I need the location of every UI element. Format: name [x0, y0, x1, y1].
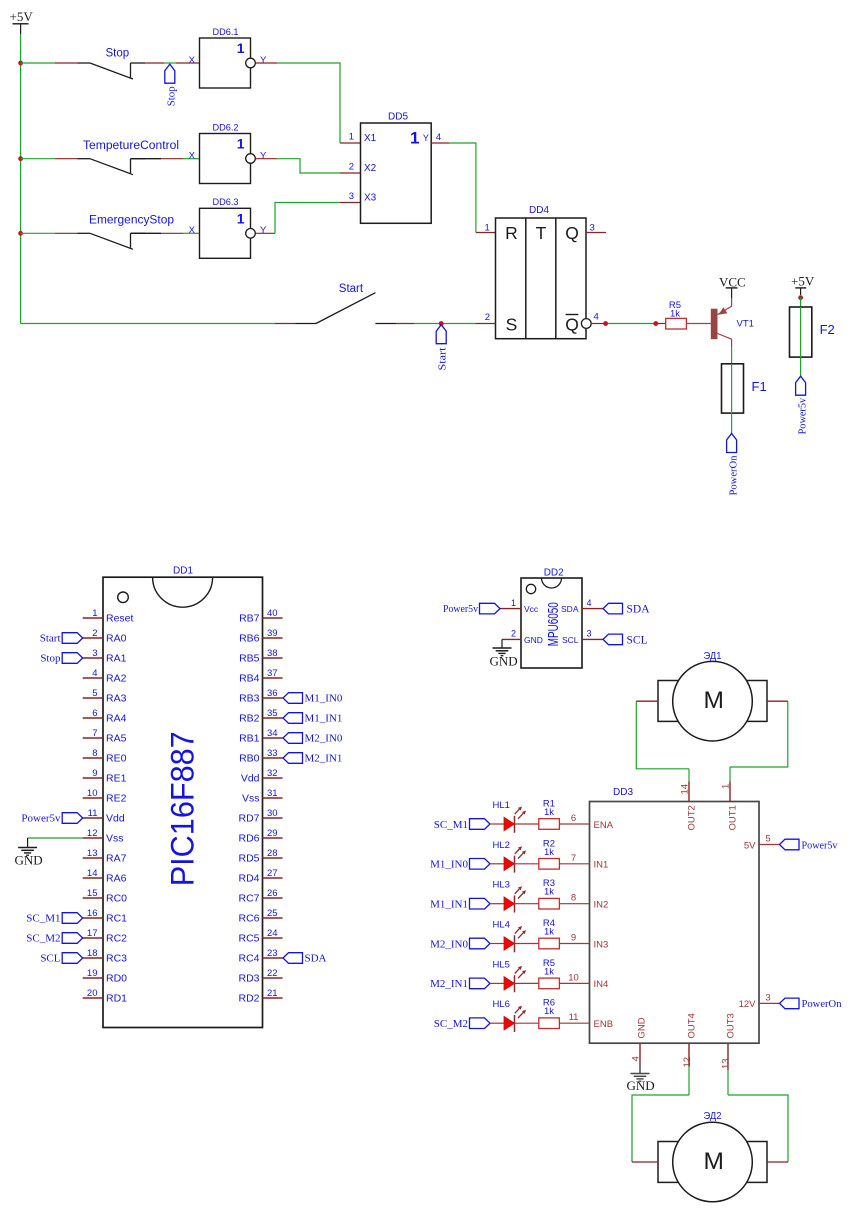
switch SA4 Start: [296, 283, 376, 324]
svg-text:M1_IN1: M1_IN1: [305, 713, 343, 725]
svg-text:HL5: HL5: [493, 959, 510, 970]
resistor R2 1k: [539, 838, 560, 869]
pin DD5.1: [349, 132, 354, 143]
resistor R6 1k: [539, 998, 560, 1029]
flag PowerOn at DD3.3: [780, 998, 842, 1010]
wire F1 to PowerOn flag: [731, 413, 733, 434]
wire OUT1 to ЭД1 right terminal: [730, 701, 788, 781]
svg-text:15: 15: [87, 888, 98, 899]
wire HL4 to R4: [514, 943, 539, 945]
svg-text:RC1: RC1: [106, 913, 127, 925]
svg-text:29: 29: [267, 828, 278, 839]
svg-text:RD4: RD4: [238, 873, 259, 885]
svg-text:4: 4: [92, 668, 97, 679]
svg-text:GND: GND: [637, 1017, 648, 1038]
pin DD2.4 SDA: [561, 598, 603, 614]
svg-text:RA0: RA0: [106, 633, 127, 645]
pin DD1.32 Vdd: [241, 768, 283, 785]
svg-text:RD1: RD1: [106, 993, 127, 1005]
svg-text:RC3: RC3: [106, 953, 127, 965]
svg-text:1: 1: [237, 210, 245, 226]
svg-text:24: 24: [267, 928, 278, 939]
pin DD5.3: [349, 191, 354, 202]
svg-text:1: 1: [237, 40, 245, 56]
svg-text:M1_IN0: M1_IN0: [430, 859, 468, 871]
svg-text:32: 32: [267, 768, 278, 779]
svg-text:5: 5: [92, 688, 97, 699]
svg-text:Q: Q: [565, 223, 579, 243]
pin DD3.10 IN4: [559, 972, 608, 990]
wire OUT3 to ЭД2 right terminal: [728, 1070, 788, 1162]
led HL2: [493, 840, 527, 873]
wire M2_IN1 flag to HL5: [490, 982, 504, 984]
flag M2_IN0 at DD1.34: [283, 733, 343, 745]
wire +5V to F2: [800, 298, 802, 307]
pin DD1.14 RA6: [83, 868, 127, 885]
pin DD5.2: [349, 162, 354, 173]
switch SA2 TempetureControl: [78, 140, 180, 175]
flag Start (vertical): [436, 325, 448, 371]
svg-text:T: T: [536, 223, 547, 243]
wire HL6 to R6: [514, 1022, 539, 1024]
svg-text:28: 28: [267, 848, 278, 859]
svg-text:2: 2: [485, 312, 490, 323]
pin DD1.31 Vss: [242, 788, 283, 805]
svg-text:1k: 1k: [544, 887, 554, 898]
svg-text:6: 6: [92, 708, 97, 719]
svg-text:RD5: RD5: [238, 853, 259, 865]
svg-text:HL3: HL3: [493, 880, 510, 891]
svg-text:ENA: ENA: [594, 820, 614, 831]
node junction Start flag: [439, 321, 444, 326]
pin DD4.3 Q output stub: [586, 222, 606, 233]
flag Power5v at DD2.1: [443, 603, 500, 615]
svg-text:S: S: [506, 315, 518, 335]
flag SC_M2 at DD3.11: [434, 1018, 490, 1030]
pin DD1.4 RA2: [83, 668, 127, 685]
pin DD1.30 RD7: [238, 808, 282, 825]
pin DD3.4 GND: [631, 1017, 648, 1064]
svg-text:X3: X3: [364, 193, 377, 204]
wire DD4 Q-bar to R5: [592, 323, 666, 325]
svg-text:SC_M1: SC_M1: [26, 913, 60, 925]
svg-text:4: 4: [631, 1056, 642, 1061]
wire row2 switch to DD6.2: [131, 158, 200, 160]
svg-text:2: 2: [349, 162, 354, 173]
resistor R3 1k: [539, 878, 560, 909]
svg-text:3: 3: [92, 648, 97, 659]
flag PowerOn (vertical): [727, 434, 740, 496]
svg-text:IN4: IN4: [594, 979, 609, 990]
svg-text:HL2: HL2: [493, 840, 510, 851]
wire row2 rail to switch: [21, 158, 78, 160]
svg-text:DD3: DD3: [613, 787, 633, 798]
wire F2 to Power5v flag: [800, 357, 802, 376]
flag Power5v at DD1.11: [21, 813, 82, 825]
svg-text:RA2: RA2: [106, 673, 127, 685]
fuse F2: [790, 307, 835, 357]
svg-text:Stop: Stop: [106, 48, 130, 60]
svg-text:22: 22: [267, 968, 278, 979]
svg-text:SCL: SCL: [627, 634, 648, 646]
svg-text:Y: Y: [260, 55, 267, 66]
pin DD1.39 RB6: [239, 628, 282, 645]
svg-text:RA1: RA1: [106, 653, 127, 665]
switch SA1 Stop: [78, 48, 146, 80]
pin DD4.1: [485, 222, 490, 233]
flag Start at DD1.2: [40, 633, 83, 645]
inverter DD6.2: [189, 122, 267, 183]
fuse F1: [722, 364, 767, 413]
wire +5V rail vertical: [20, 34, 22, 324]
svg-text:HL4: HL4: [493, 920, 510, 931]
svg-text:16: 16: [87, 908, 98, 919]
svg-text:RA7: RA7: [106, 853, 127, 865]
svg-text:OUT1: OUT1: [727, 805, 738, 830]
led HL4: [493, 920, 527, 953]
flag M2_IN1 at DD3.10: [430, 978, 490, 990]
svg-text:34: 34: [267, 728, 278, 739]
svg-text:M: M: [703, 687, 723, 714]
svg-text:DD5: DD5: [388, 112, 408, 123]
wire HL2 to R2: [514, 863, 539, 865]
flag SDA at DD1.23: [283, 953, 327, 965]
wire row3 rail to switch: [21, 232, 78, 234]
svg-text:ENB: ENB: [594, 1019, 614, 1030]
svg-text:35: 35: [267, 708, 278, 719]
wire row1 rail to switch: [21, 62, 78, 64]
flag M1_IN1 at DD3.8: [430, 898, 490, 910]
svg-text:12: 12: [682, 1057, 693, 1068]
svg-text:GND: GND: [627, 1078, 655, 1093]
svg-text:DD6.2: DD6.2: [213, 122, 239, 132]
resistor R1 1k: [539, 799, 560, 830]
pin DD1.38 RB5: [239, 648, 282, 665]
svg-text:OUT2: OUT2: [686, 805, 697, 830]
svg-text:Reset: Reset: [106, 613, 134, 625]
svg-text:RC2: RC2: [106, 933, 127, 945]
svg-text:1: 1: [721, 784, 732, 789]
svg-text:F2: F2: [820, 322, 835, 337]
svg-text:SC_M1: SC_M1: [434, 819, 468, 831]
wire rail to Start switch: [21, 323, 296, 325]
svg-text:7: 7: [571, 853, 576, 864]
svg-text:20: 20: [87, 988, 98, 999]
svg-text:X: X: [189, 55, 196, 66]
wire SC_M1 flag to HL1: [490, 823, 504, 825]
pin DD3.12 OUT4: [682, 1013, 697, 1067]
resistor R5 (base): [666, 300, 687, 329]
svg-text:PowerOn: PowerOn: [802, 998, 842, 1010]
pin DD1.18 RC3: [83, 948, 127, 965]
pin DD1.2 RA0: [83, 628, 127, 645]
flag Stop at DD1.3: [40, 653, 82, 665]
flag M1_IN0 at DD1.36: [283, 693, 343, 705]
svg-text:25: 25: [267, 908, 278, 919]
svg-text:Power5v: Power5v: [21, 813, 61, 825]
svg-text:RC6: RC6: [238, 913, 259, 925]
svg-text:1k: 1k: [544, 966, 554, 977]
svg-text:36: 36: [267, 688, 278, 699]
svg-text:X1: X1: [364, 133, 377, 144]
svg-text:RA5: RA5: [106, 733, 127, 745]
svg-text:RB6: RB6: [239, 633, 260, 645]
led HL1: [493, 800, 527, 833]
flag SC_M1 at DD1.16: [26, 913, 82, 925]
svg-text:RA6: RA6: [106, 873, 127, 885]
svg-text:RB5: RB5: [239, 653, 260, 665]
svg-text:RD2: RD2: [238, 993, 259, 1005]
svg-text:Vdd: Vdd: [106, 813, 125, 825]
svg-text:7: 7: [92, 728, 97, 739]
flag SCL at DD1.18: [40, 953, 82, 965]
svg-text:+5V: +5V: [10, 9, 34, 24]
svg-text:1: 1: [92, 608, 97, 619]
svg-text:Power5v: Power5v: [443, 603, 478, 615]
node junction Q-bar B: [653, 321, 658, 326]
svg-text:RD3: RD3: [238, 973, 259, 985]
svg-text:DD4: DD4: [529, 205, 549, 216]
svg-text:X2: X2: [364, 163, 377, 174]
svg-text:RC5: RC5: [238, 933, 259, 945]
svg-text:8: 8: [92, 748, 97, 759]
wire DD3 GND to ground: [639, 1064, 641, 1074]
svg-text:RB2: RB2: [239, 713, 260, 725]
svg-text:HL6: HL6: [493, 999, 510, 1010]
svg-text:13: 13: [87, 848, 98, 859]
ic DD3 body: [590, 787, 760, 1043]
svg-text:VT1: VT1: [737, 318, 754, 329]
pin DD1.6 RA4: [83, 708, 127, 725]
pin DD1.25 RC6: [238, 908, 282, 925]
svg-text:30: 30: [267, 808, 278, 819]
pin DD1.28 RD5: [238, 848, 282, 865]
flag M2_IN0 at DD3.9: [430, 938, 490, 950]
pin DD1.8 RE0: [83, 748, 127, 765]
svg-text:IN1: IN1: [594, 860, 609, 871]
svg-text:SC_M2: SC_M2: [26, 933, 60, 945]
svg-text:Vss: Vss: [242, 793, 260, 805]
flag SC_M1 at DD3.6: [434, 819, 490, 831]
ic DD2 MPU6050 body: [521, 568, 582, 669]
wire row1 switch to DD6.1: [145, 62, 199, 64]
svg-text:F1: F1: [752, 379, 767, 394]
wire DD2 GND down: [501, 639, 503, 648]
wire Start switch to DD4 S: [375, 323, 495, 325]
svg-text:Start: Start: [437, 348, 449, 371]
svg-text:11: 11: [88, 808, 98, 819]
svg-text:40: 40: [267, 608, 278, 619]
svg-text:RA3: RA3: [106, 693, 127, 705]
wire VT1 collector to F1: [731, 347, 733, 363]
svg-text:1: 1: [237, 136, 245, 152]
pin DD1.15 RC0: [83, 888, 127, 905]
resistor R5 1k: [539, 958, 560, 989]
svg-text:+5V: +5V: [791, 274, 815, 289]
svg-text:OUT4: OUT4: [686, 1013, 697, 1038]
svg-text:M1_IN0: M1_IN0: [305, 693, 343, 705]
pin DD1.21 RD2: [238, 988, 282, 1005]
svg-text:DD2: DD2: [544, 568, 564, 579]
pin DD1.22 RD3: [238, 968, 282, 985]
pin DD1.23 RC4: [238, 948, 282, 965]
pin DD4.4 Q-bar bubble: [581, 312, 598, 329]
svg-text:1k: 1k: [544, 1006, 554, 1017]
svg-text:DD1: DD1: [173, 566, 193, 577]
svg-text:2: 2: [92, 628, 97, 639]
flag Power5v at DD3.5: [780, 839, 838, 851]
transistor VT1 (PNP): [711, 307, 754, 347]
svg-text:Stop: Stop: [165, 86, 177, 106]
pin DD3.7 IN1: [559, 853, 608, 871]
pin DD1.34 RB1: [239, 728, 282, 745]
node junction F2 top: [798, 295, 803, 300]
svg-text:3: 3: [349, 191, 354, 202]
pin DD5.4: [436, 132, 441, 143]
svg-text:SDA: SDA: [627, 604, 651, 616]
pin DD1.9 RE1: [83, 768, 127, 785]
svg-text:4: 4: [587, 598, 592, 608]
motor ЭД2: [658, 1111, 767, 1202]
svg-text:1k: 1k: [544, 847, 554, 858]
pin DD1.27 RD4: [238, 868, 282, 885]
inverter DD6.1: [189, 27, 267, 88]
svg-text:1: 1: [511, 598, 516, 608]
svg-text:2: 2: [511, 629, 516, 639]
flag M1_IN1 at DD1.35: [283, 713, 342, 725]
wire DD6.2 Y to DD5 X2: [256, 159, 361, 173]
svg-text:4: 4: [436, 132, 441, 143]
power +5V (top left): [10, 9, 34, 34]
svg-text:RB4: RB4: [239, 673, 260, 685]
pin DD1.19 RD0: [83, 968, 127, 985]
svg-text:Y: Y: [260, 225, 267, 236]
node junction row2: [18, 156, 23, 161]
wire VCC to VT1 emitter: [718, 298, 732, 315]
svg-text:14: 14: [680, 784, 691, 795]
svg-text:Start: Start: [40, 633, 61, 645]
svg-text:RE0: RE0: [106, 753, 127, 765]
svg-text:9: 9: [571, 933, 576, 944]
wire DD6.1 Y to DD5 X1: [256, 63, 361, 143]
svg-text:RA4: RA4: [106, 713, 127, 725]
pin DD1.12 Vss: [83, 828, 124, 845]
wire R5 to VT1 base: [686, 323, 710, 325]
svg-text:M2_IN0: M2_IN0: [430, 938, 468, 950]
svg-text:39: 39: [267, 628, 278, 639]
svg-text:23: 23: [267, 948, 278, 959]
pin DD3.8 IN2: [559, 893, 608, 911]
svg-text:5V: 5V: [744, 840, 756, 851]
pin DD1.40 RB7: [239, 608, 282, 625]
svg-text:Power5v: Power5v: [802, 839, 838, 851]
wire DD6.3 Y to DD5 X3: [256, 203, 361, 234]
svg-text:X: X: [189, 225, 196, 236]
svg-text:Y: Y: [423, 133, 429, 143]
svg-text:1: 1: [485, 222, 490, 233]
pin DD1.26 RC7: [238, 888, 282, 905]
svg-text:17: 17: [87, 928, 98, 939]
wire row3 switch to DD6.3: [131, 232, 200, 234]
svg-text:37: 37: [267, 668, 278, 679]
svg-text:10: 10: [568, 972, 579, 983]
svg-text:ЭД2: ЭД2: [704, 1111, 722, 1122]
power VCC: [719, 275, 746, 299]
svg-text:3: 3: [587, 629, 592, 639]
wire M1_IN0 flag to HL2: [490, 863, 504, 865]
flag SC_M2 at DD1.17: [26, 933, 82, 945]
pin DD1.3 RA1: [83, 648, 127, 665]
svg-text:12: 12: [87, 828, 98, 839]
flag Power5v (vertical): [796, 376, 809, 434]
or-gate DD5: [361, 112, 432, 224]
svg-text:27: 27: [267, 868, 278, 879]
pin DD2.3 SCL: [562, 629, 603, 646]
pin DD1.10 RE2: [83, 788, 127, 805]
svg-text:GND: GND: [524, 635, 543, 645]
wire DD5 Y to DD4 R: [431, 143, 495, 233]
svg-text:M2_IN0: M2_IN0: [305, 733, 343, 745]
node junction row1: [18, 61, 23, 66]
svg-text:12V: 12V: [739, 999, 757, 1010]
svg-text:19: 19: [87, 968, 98, 979]
svg-text:Y: Y: [260, 150, 267, 161]
resistor R4 1k: [539, 918, 560, 949]
svg-text:M: M: [703, 1148, 723, 1175]
wire HL3 to R3: [514, 903, 539, 905]
led HL6: [493, 999, 527, 1032]
svg-text:PIC16F887: PIC16F887: [165, 731, 201, 886]
svg-text:TempetureControl: TempetureControl: [83, 140, 179, 152]
svg-text:21: 21: [267, 988, 278, 999]
svg-text:SCL: SCL: [562, 635, 579, 645]
svg-text:GND: GND: [15, 853, 43, 868]
svg-text:1k: 1k: [544, 807, 554, 818]
svg-text:M2_IN1: M2_IN1: [430, 978, 468, 990]
svg-text:38: 38: [267, 648, 278, 659]
flag SCL at DD2.3: [603, 634, 648, 646]
svg-text:10: 10: [87, 788, 98, 799]
svg-text:RE2: RE2: [106, 793, 127, 805]
svg-text:SCL: SCL: [40, 953, 60, 965]
svg-text:13: 13: [721, 1058, 732, 1069]
svg-text:RD6: RD6: [238, 833, 259, 845]
svg-text:R: R: [505, 223, 518, 243]
wire M2_IN0 flag to HL4: [490, 943, 504, 945]
power +5V (F2): [791, 274, 815, 296]
pin DD3.14 OUT2: [680, 782, 698, 831]
ground GND (DD1): [15, 848, 43, 868]
svg-text:9: 9: [92, 768, 97, 779]
svg-text:RC7: RC7: [238, 893, 259, 905]
svg-text:Start: Start: [339, 283, 364, 295]
motor ЭД1: [658, 651, 767, 741]
svg-text:Q: Q: [565, 315, 579, 335]
svg-text:RD0: RD0: [106, 973, 127, 985]
pin DD1.33 RB0: [239, 748, 282, 765]
svg-text:RB7: RB7: [239, 613, 260, 625]
wire HL5 to R5: [514, 982, 539, 984]
svg-text:18: 18: [87, 948, 98, 959]
svg-text:26: 26: [267, 888, 278, 899]
pin DD1.16 RC1: [83, 908, 127, 925]
svg-text:RD7: RD7: [238, 813, 259, 825]
pin DD3.13 OUT3: [721, 1013, 737, 1070]
svg-text:3: 3: [590, 222, 595, 233]
pin DD3.5 5V: [744, 834, 780, 852]
svg-text:RB3: RB3: [239, 693, 260, 705]
switch SA3 EmergencyStop: [78, 215, 175, 250]
